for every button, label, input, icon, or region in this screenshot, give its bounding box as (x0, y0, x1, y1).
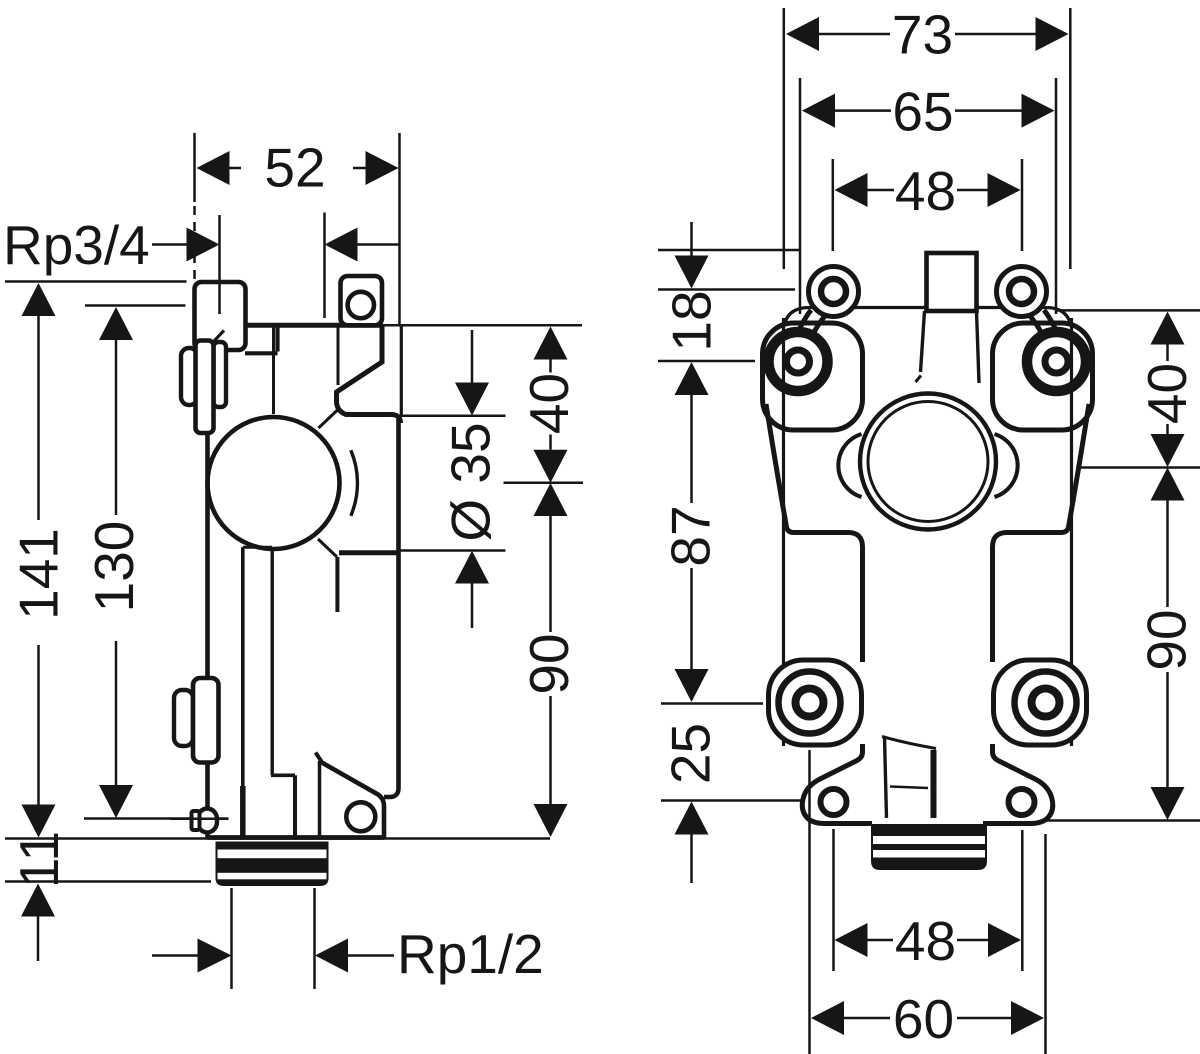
dimension 48 bottom: line segments (868, 939, 989, 942)
body: bottom bracket hole (346, 802, 375, 831)
dimension 60: line segments (844, 1017, 1011, 1020)
dimension 130: top arrowhead (99, 307, 133, 340)
front body: inner plate (784, 308, 1072, 747)
body: dome inner arc (351, 450, 358, 516)
bottom reference line B (5, 880, 211, 883)
front body: left lobe (763, 323, 863, 430)
front spigot thread stripe 2 (873, 850, 985, 858)
front body: cartridge circle outer (860, 394, 996, 530)
dimension 52: left arrowhead (197, 151, 230, 185)
body: diagonal dome to upper step (319, 410, 338, 428)
front body: right lobe washer inner (1045, 350, 1068, 373)
svg-text:48: 48 (895, 160, 956, 222)
svg-text:25: 25 (660, 723, 722, 784)
dimension 11: tail (37, 917, 40, 962)
dimension D35: bottom arrowhead (455, 551, 489, 584)
dimension Rp1/2: right arrowhead (315, 939, 348, 973)
Rp3/4 leader inside tab (218, 282, 221, 314)
front body: right taper and step (993, 404, 1090, 662)
front body: left top ear (809, 267, 859, 317)
body: interior line above dome (272, 327, 275, 414)
dimension 130: bottom arrowhead (99, 785, 133, 818)
dimension 141: bottom arrowhead (22, 805, 56, 838)
dimension 60: right arrowhead (1011, 1001, 1044, 1035)
svg-text:90: 90 (1136, 609, 1198, 670)
dimension 40 right: top arrowhead (1151, 312, 1185, 345)
body: left wall middle (205, 434, 210, 677)
front body: inner pipe sketch (885, 737, 887, 818)
dimension 60: left arrowhead (811, 1001, 844, 1035)
dimension Rp1/2: left tail (152, 954, 198, 957)
body: interior vertical right above spigot (293, 775, 297, 837)
spigot thread stripe 2 (218, 873, 327, 880)
front body: lower left ear (769, 660, 862, 745)
front body: left lobe washer inner (787, 350, 810, 373)
dimension 48 bottom: right arrowhead (988, 923, 1021, 957)
dimension 40/90 left: center reference line (504, 482, 584, 485)
front body: lower left washer (779, 672, 841, 734)
dimension 87: line segments (690, 395, 693, 669)
body: interior vertical center below dome (271, 550, 274, 775)
inner width arrowhead (points left) (325, 228, 358, 262)
front body: left lobe washer (769, 332, 828, 391)
svg-text:Ø 35: Ø 35 (440, 422, 502, 541)
front body: lower left washer inner (796, 689, 824, 717)
dimension 90 left: bottom arrowhead (534, 804, 568, 837)
svg-text:65: 65 (892, 81, 953, 143)
dimension 40 left: reference line (thin part of body top line) (383, 324, 582, 327)
Rp3/4 leader extension into tab (218, 215, 221, 314)
svg-text:Rp3/4: Rp3/4 (3, 214, 150, 276)
dimension 52: right arrowhead (366, 151, 399, 185)
body: Rp3/4 top tab (195, 282, 246, 350)
svg-text:40: 40 (1136, 363, 1198, 424)
dimension 48 bottom: left arrowhead (835, 923, 868, 957)
body: upper flange tab (196, 341, 214, 434)
dimension 90 left: bowtie arrowhead up (534, 483, 568, 516)
dimension 11: bottom arrowhead (21, 884, 55, 917)
dimension 48 top: left arrowhead (835, 173, 868, 207)
dimension 40 left: top arrowhead (534, 327, 568, 360)
dimension 130: top reference line (85, 304, 186, 307)
body: lower flange bump (174, 690, 193, 746)
dimension 40/90 right: center reference line (1077, 466, 1200, 469)
front body: tab bottom tick (916, 376, 922, 383)
body: fastening pin (198, 809, 218, 833)
front body: right lobe (993, 323, 1093, 430)
dimension 130: bottom reference line (84, 817, 229, 820)
dimension 90 right: bottom reference line (1041, 819, 1200, 822)
front body: right bracket hole (1009, 789, 1035, 815)
Rp3/4 leader arrowhead (187, 228, 220, 262)
dimension Rp1/2: right tail (348, 954, 394, 957)
dimension 25: bottom arrowhead (675, 802, 709, 835)
front body: right lobe washer (1027, 332, 1086, 391)
body: interior stub below step (335, 557, 339, 612)
body: top bracket (341, 276, 383, 325)
front body: left taper and step (766, 404, 863, 662)
body: lower step edge (339, 550, 398, 555)
svg-text:60: 60 (893, 988, 954, 1050)
dimension Rp1/2: left arrowhead (198, 939, 232, 973)
body: dome (208, 417, 340, 549)
inner width extension line (323, 213, 326, 319)
dimension 130: line segments (115, 340, 118, 785)
dimension 25: bottom reference line (661, 799, 807, 802)
front body: plate edge over right washer (1070, 318, 1073, 430)
svg-text:52: 52 (264, 137, 325, 199)
front body: threaded spigot (871, 824, 987, 870)
body: left wall lower (205, 763, 210, 838)
body: diagonal dome to lower step (318, 539, 337, 557)
body: lower flange tab (193, 678, 219, 763)
body: right edge (384, 417, 399, 797)
inner width stub (358, 243, 400, 246)
Rp3/4 leader line (152, 243, 187, 246)
front body: lower right washer inner (1032, 689, 1060, 717)
body: tab inner tick (214, 331, 224, 342)
body: step under dome (243, 546, 272, 549)
front body: tab side sketch lines (921, 311, 980, 383)
svg-text:40: 40 (518, 373, 580, 434)
svg-text:130: 130 (83, 521, 145, 613)
dimension 90 right: bowtie arrowhead up (1151, 468, 1185, 501)
dimension 40 left: bowtie arrowhead down (534, 450, 568, 483)
body: top bracket hole (348, 292, 374, 318)
dimension 18: top arrowhead (675, 256, 709, 289)
body: bottom bracket corner tick (316, 753, 322, 762)
body: interior vertical left below dome (241, 547, 245, 837)
body: upper flange inner plate (214, 342, 227, 407)
dimension 65: left arrowhead (802, 94, 835, 128)
dimension 65: extension lines (800, 78, 1056, 314)
front body: right ear tail strokes (1030, 310, 1059, 344)
front body: left bottom bracket (802, 744, 872, 824)
svg-text:18: 18 (661, 290, 723, 351)
dimension 73: right arrowhead (1036, 17, 1069, 51)
dimension D35: top reference line (401, 415, 506, 418)
front body: lower right ear (994, 660, 1087, 745)
dimension 48 bottom: extension lines (834, 829, 1023, 971)
dimension 25: top reference line (661, 702, 763, 705)
body: interior step above spigot (271, 773, 295, 777)
dimension 73: line segments (819, 33, 1036, 36)
dimension 18/87: shared arrowhead up (675, 362, 709, 395)
dimension 73: extension lines (784, 8, 1071, 269)
front body: lower right washer (1015, 672, 1077, 734)
body: thick pipe wall lower (240, 786, 246, 837)
front body: right top ear (997, 267, 1047, 317)
dimension D35: bottom reference line (401, 549, 506, 552)
dimension 48 top: extension lines (833, 159, 1022, 251)
front body: top tab (927, 253, 977, 311)
body: bottom bracket interior edge (318, 761, 322, 837)
svg-text:11: 11 (8, 831, 70, 888)
dimension 65: line segments (835, 109, 1022, 112)
front body: left bracket hole (821, 789, 847, 815)
dimension 52: dimension line stubs (230, 167, 366, 170)
front body: left ear tail strokes (796, 310, 825, 344)
svg-text:87: 87 (660, 505, 722, 566)
dimension 141: line segments (37, 316, 40, 805)
body: interior line right above dome (337, 327, 340, 385)
dimension D35: tails (471, 330, 474, 628)
body: flange diagonal tick (214, 331, 224, 342)
front body: plate edge over left washer (782, 318, 785, 430)
svg-text:Rp1/2: Rp1/2 (397, 923, 544, 985)
dimension 90 right: bottom arrowhead (1151, 787, 1185, 820)
front body: right bottom bracket (983, 744, 1053, 824)
dimension 18: bottom reference line (658, 360, 755, 363)
body: threaded spigot Rp1/2 (216, 842, 329, 887)
svg-text:90: 90 (518, 633, 580, 694)
front spigot thread stripe 1 (873, 836, 985, 844)
dimension 73: left arrowhead (786, 17, 819, 51)
dimension 52: extension line right (398, 133, 401, 324)
dimension 40/90 left: line segments (549, 360, 552, 805)
dimension 48 top: right arrowhead (988, 173, 1021, 207)
dimension D35: top arrowhead (455, 383, 489, 416)
dimension Rp1/2: extension lines (232, 888, 315, 989)
body: upper Z step (337, 325, 401, 423)
svg-text:141: 141 (8, 528, 70, 620)
body: port boss step below tab (245, 327, 278, 353)
body: top edge (245, 323, 383, 328)
body: upper flange bump (181, 348, 198, 405)
svg-text:48: 48 (895, 910, 956, 972)
svg-text:73: 73 (892, 4, 953, 66)
dimension 60: extension lines (810, 750, 1046, 1054)
body: bottom edge (208, 835, 385, 840)
dimension 52: extension line left (dashed lower part) (193, 133, 196, 202)
front body: right ear hole (1009, 279, 1034, 304)
front body: left wing arc (838, 434, 861, 497)
front body: left ear hole (821, 279, 846, 304)
dimension 18: top tail and reference line (690, 222, 693, 256)
dimension 65: right arrowhead (1022, 94, 1055, 128)
body: right edge thin upper (400, 326, 403, 418)
body: fastening pin head (192, 811, 200, 830)
body: bottom bracket hypotenuse (320, 762, 384, 838)
dimension 25: bottom tail (690, 835, 693, 884)
dimension 40 right: bowtie arrowhead down (1151, 434, 1185, 467)
front body: cartridge circle inner (868, 402, 988, 522)
front body: right wing arc (995, 434, 1018, 497)
dimension 40/90 right: line segments (1166, 345, 1169, 788)
spigot thread stripe 1 (218, 850, 327, 859)
dimension 40 right: top reference line (1057, 309, 1200, 312)
dimension 87/25: shared arrowhead down (675, 669, 709, 702)
dimension 48 top: line segments (868, 189, 988, 192)
body: pin centerline (170, 817, 229, 820)
dimension 141: top reference line (5, 280, 187, 283)
dimension 141: top arrowhead (22, 283, 56, 316)
bottom reference line A (5, 837, 550, 840)
